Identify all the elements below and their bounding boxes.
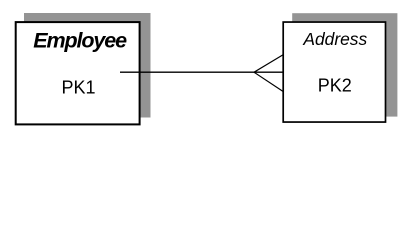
svg-text:Address: Address (302, 29, 367, 49)
svg-text:Employee: Employee (33, 28, 127, 52)
svg-text:PK2: PK2 (318, 76, 352, 96)
svg-text:PK1: PK1 (61, 78, 95, 98)
